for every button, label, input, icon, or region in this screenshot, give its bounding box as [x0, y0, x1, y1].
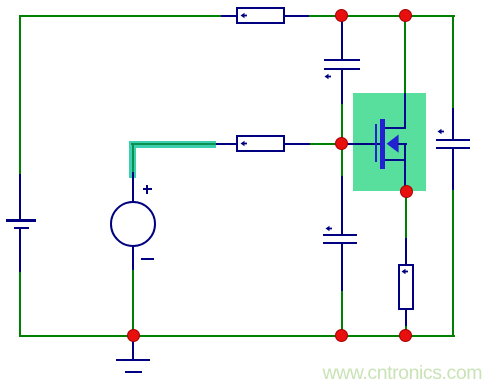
wire C1 bottom lead — [341, 70, 343, 105]
wire R2 left lead — [216, 143, 237, 145]
watermark www.cntronics.com — [323, 362, 483, 385]
highlighted wire (teal) horizontal — [129, 141, 216, 148]
wire R2 right lead — [284, 143, 310, 145]
transistor Q1 gate bar — [375, 124, 377, 163]
wire C2 bottom lead — [341, 244, 343, 291]
capacitor C3 top plate — [436, 139, 470, 141]
capacitor C2 top plate — [323, 234, 357, 236]
capacitor C1 bottom plate — [324, 68, 360, 70]
wire left column green upper — [19, 15, 21, 175]
node bottom middle — [335, 329, 348, 342]
node source — [400, 185, 413, 198]
ground stub — [132, 336, 134, 360]
resistor R1 — [236, 7, 285, 24]
marker R1 — [240, 11, 249, 20]
highlight box around Q1 — [353, 93, 426, 191]
battery B1 long plate — [6, 219, 36, 221]
battery B1 short plate — [14, 227, 29, 229]
wire right column green upper — [452, 15, 454, 109]
transistor Q1 drain stub — [385, 127, 406, 129]
wire top middle (green) — [309, 15, 455, 17]
wire R3 bottom lead — [405, 309, 407, 326]
resistor R2 — [236, 135, 285, 152]
wire C3 top lead — [452, 108, 454, 140]
wire top left (green) — [19, 15, 222, 17]
wire C2 top lead — [341, 176, 343, 236]
marker R3 — [401, 267, 410, 276]
transistor Q1 body tail — [398, 143, 407, 145]
highlighted wire (teal) vertical — [129, 141, 136, 179]
wire left column green lower — [19, 272, 21, 337]
capacitor C2 bottom plate — [323, 242, 357, 244]
wire R3 top lead — [405, 238, 407, 265]
wire core horizontal (green) — [131, 143, 216, 145]
node top right — [399, 9, 412, 22]
wire core vertical (green) — [132, 143, 134, 173]
wire C3 bottom lead — [452, 149, 454, 190]
marker C3 — [437, 127, 446, 136]
wire right column green lower — [452, 190, 454, 337]
source V1 minus sign — [141, 258, 154, 260]
wire middle green lower — [341, 291, 343, 337]
wire R3 to bottom node (green) — [405, 326, 407, 336]
node bottom left — [127, 329, 140, 342]
source V1 plus sign — [143, 188, 152, 190]
ground bar 2 — [125, 371, 143, 374]
marker C2 — [325, 224, 334, 233]
resistor R3 — [398, 264, 414, 310]
capacitor C1 top plate — [324, 59, 360, 61]
wire V1 top lead — [132, 172, 134, 202]
node top middle — [335, 9, 348, 22]
transistor Q1 drain lead vertical — [404, 93, 406, 129]
source V1 circle — [110, 201, 156, 247]
transistor Q1 body arrow — [386, 134, 399, 154]
wire B1 top lead — [19, 174, 21, 220]
node gate — [335, 137, 348, 150]
wire gate lead — [343, 143, 381, 145]
wire bottom (green) — [19, 335, 455, 337]
wire C1 top lead — [341, 16, 343, 60]
wire source node to R3 (green) — [405, 196, 407, 238]
transistor Q1 source stub — [385, 159, 406, 161]
wire V1 to bottom (green) — [132, 270, 134, 336]
ground bar 1 — [116, 359, 151, 362]
wire B1 bottom lead — [19, 229, 21, 272]
wire middle green to gate node — [341, 104, 343, 178]
wire R1 right lead — [284, 15, 309, 17]
marker C1 — [324, 72, 333, 81]
node bottom right — [399, 329, 412, 342]
wire green to gate dot — [310, 143, 342, 145]
transistor Q1 channel bar — [380, 119, 385, 170]
wire drain to top node (green) — [404, 16, 406, 93]
capacitor C3 bottom plate — [436, 147, 470, 149]
wire V1 bottom lead — [132, 246, 134, 270]
wire R1 left lead — [221, 15, 237, 17]
marker R2 — [240, 139, 249, 148]
transistor Q1 body-source vertical — [404, 143, 406, 192]
